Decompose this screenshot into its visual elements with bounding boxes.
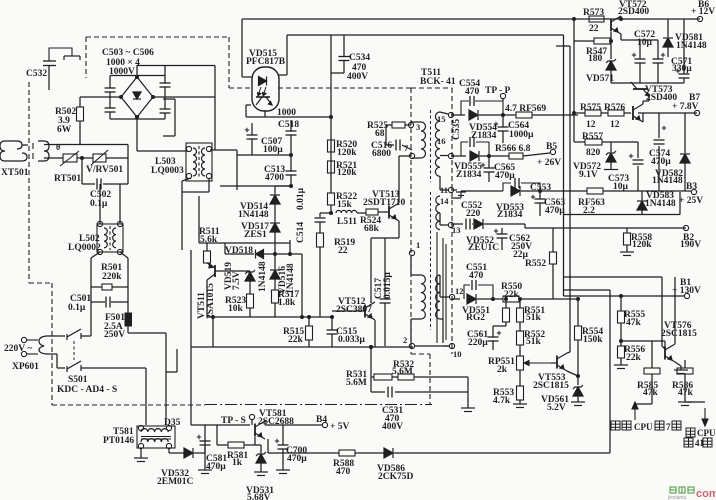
junction base node	[619, 339, 623, 343]
wire to B2	[525, 227, 686, 229]
terminal TP-S	[249, 414, 254, 419]
wire VD572 down	[610, 162, 612, 169]
svg-text:120k: 120k	[337, 168, 357, 178]
wire C573 bottom	[637, 166, 639, 191]
wire VD554 out	[479, 114, 503, 116]
svg-text:V/RV501: V/RV501	[86, 165, 123, 175]
wire VT581 collector	[264, 421, 266, 425]
wire node down to C502 row	[81, 158, 83, 184]
resistor (divider)	[503, 308, 510, 322]
resistor R519	[317, 233, 324, 247]
svg-text:47k: 47k	[678, 388, 694, 398]
transistor VT576	[665, 344, 675, 362]
wire cap top	[657, 40, 659, 59]
capacitor C563	[531, 195, 546, 203]
wire cap column left	[236, 150, 238, 190]
wire to RF563 area	[540, 190, 565, 192]
wire VD561 bottom	[577, 396, 579, 402]
svg-text:+ 26V: + 26V	[537, 158, 561, 168]
wire C551 loop left	[464, 285, 470, 299]
wire R585 top	[651, 341, 653, 368]
wire VT511 base to VD519	[215, 270, 250, 272]
wire VD514 to VD517	[274, 204, 276, 222]
resistor R585	[644, 368, 660, 374]
capacitor C562	[494, 229, 508, 238]
chassis plate	[64, 56, 80, 60]
wire R586 top	[684, 360, 686, 368]
wire C551 loop right	[478, 285, 493, 299]
wire C700 bottom	[282, 449, 284, 470]
wire R531 feed	[370, 347, 372, 377]
wire C574 bottom	[658, 146, 660, 191]
wire VT513 emitter down	[398, 221, 400, 238]
svg-text:0.015µ: 0.015µ	[383, 272, 393, 299]
svg-text:2SC1815: 2SC1815	[533, 381, 569, 391]
wire C574 top	[658, 113, 660, 138]
svg-text:0.1µ: 0.1µ	[68, 303, 86, 313]
svg-text:470: 470	[469, 271, 484, 281]
resistor R556	[618, 346, 625, 358]
capacitor C700	[275, 439, 289, 449]
label 来 (CJK)	[611, 421, 620, 430]
wire R554 top	[577, 299, 579, 326]
capacitor C572b	[653, 53, 666, 63]
capacitor (bypass)	[470, 137, 474, 147]
wire cap to bottom	[109, 112, 111, 119]
wire pass emitter	[642, 113, 644, 122]
wire right cap column to bus	[164, 66, 166, 76]
wire left regulator bus lower	[573, 113, 575, 142]
wire left box vertical to VT581 feed	[190, 250, 192, 425]
wire lower B3 loop	[564, 214, 681, 216]
capacitor C504	[105, 108, 116, 112]
svg-text:+ 7.8V: + 7.8V	[672, 102, 699, 112]
svg-text:B5: B5	[546, 142, 557, 152]
wire C516 left	[386, 144, 394, 146]
svg-text:220V ~: 220V ~	[4, 344, 32, 354]
svg-text:Z1834: Z1834	[456, 170, 482, 180]
wire down	[56, 354, 58, 368]
wire to ground	[467, 377, 469, 408]
wire L503 bottom right down	[208, 178, 210, 192]
inductor L503 right winding	[202, 148, 206, 176]
wire TP-S stub	[251, 420, 253, 425]
wire L503 bottom left out	[182, 178, 191, 181]
junction C534 node	[329, 115, 333, 119]
thermistor RT501	[60, 151, 79, 166]
svg-text:12: 12	[455, 286, 464, 296]
wire lower primary top	[411, 274, 421, 276]
wire to C514 column	[290, 253, 302, 255]
svg-text:ZEU1C: ZEU1C	[468, 243, 499, 253]
svg-text:120k: 120k	[632, 240, 652, 250]
svg-text:22: 22	[338, 246, 348, 256]
resistor R588	[339, 450, 355, 456]
wire R555 bottom	[620, 323, 622, 346]
wire jog	[166, 371, 177, 373]
wire C515 bottom	[331, 334, 333, 347]
resistor R550	[503, 296, 519, 302]
varistor RV501	[91, 150, 108, 165]
wire top cap row	[237, 154, 291, 156]
wire collector to T511 pin 7	[399, 155, 411, 157]
wire R566 to B5	[523, 153, 550, 156]
junction	[518, 297, 522, 301]
wire R575-R576	[601, 112, 608, 114]
transistor VT573 pass	[633, 104, 643, 122]
wire C512 top	[319, 213, 321, 217]
wire C518 to row	[290, 135, 292, 155]
wire VT512 emitter down	[374, 320, 376, 347]
wire R511 top	[206, 243, 208, 251]
wire VT513 collector up to pin 7	[398, 156, 400, 203]
capacitor C565	[481, 163, 495, 172]
svg-text:+ 25V: + 25V	[679, 196, 703, 206]
wire to pin 13	[440, 224, 448, 226]
wire VD517 down	[274, 232, 276, 254]
wire C563 top	[539, 191, 541, 199]
capacitor C512	[315, 218, 326, 222]
wire left leg down	[90, 258, 92, 336]
wire C507	[251, 139, 253, 155]
wire to pin 11	[440, 189, 448, 191]
svg-text:190V: 190V	[680, 240, 701, 250]
svg-text:470: 470	[465, 87, 480, 97]
svg-text:C534: C534	[349, 53, 370, 63]
svg-text:0.033µ: 0.033µ	[338, 335, 365, 345]
watermark	[670, 487, 694, 493]
ground pin 11	[456, 192, 466, 196]
L502 pin	[97, 249, 102, 254]
shield box left (dashed)	[28, 82, 30, 283]
wire plug bottom	[51, 353, 57, 355]
shield box bottom (dashed)	[52, 404, 205, 406]
wire to C561	[493, 325, 506, 327]
T581 pin	[166, 443, 171, 448]
wire jog	[524, 224, 526, 228]
svg-text:+ 5V: + 5V	[330, 422, 350, 432]
transformer T511 boundary top (dashed)	[411, 87, 452, 89]
ground C700	[276, 470, 290, 474]
T581 pin	[138, 425, 143, 430]
wire arrow to R585	[635, 403, 652, 405]
transformer T511 boundary right (dashed)	[451, 88, 453, 354]
capacitor C554	[470, 96, 474, 106]
wire pins 2-10 link	[414, 345, 449, 347]
wire VT573 collector to row	[630, 82, 632, 83]
svg-text:10µ: 10µ	[637, 38, 653, 48]
svg-text:180: 180	[588, 54, 603, 64]
wire to C531	[371, 391, 385, 393]
wire cap to bottom	[164, 113, 166, 119]
diode VD514	[270, 195, 280, 204]
wire C514 column	[301, 254, 303, 317]
T511 pin 16	[448, 153, 453, 158]
T581 pin	[166, 425, 171, 430]
wire loop right up	[679, 192, 681, 215]
wire C513 bottom	[290, 175, 292, 186]
wire optocoupler collector out	[246, 104, 251, 106]
wire RP551-R553	[519, 370, 521, 386]
zener VD519	[245, 270, 255, 281]
wire R515 bottom	[308, 340, 310, 347]
resistor R554	[575, 326, 582, 340]
wire bottom row ext	[660, 82, 684, 84]
L502 pin	[117, 221, 122, 226]
wire DC+ bus	[137, 65, 215, 67]
wire pin1 lead	[410, 256, 412, 275]
wire fuse bottom	[127, 326, 129, 333]
wire R502 top lead	[79, 97, 81, 107]
svg-text:120k: 120k	[337, 148, 357, 158]
wire VD581 bottom	[667, 47, 669, 57]
svg-text:C518: C518	[278, 120, 299, 130]
L503 pin	[186, 173, 191, 178]
wire pin16 out	[451, 155, 466, 157]
resistor R525	[392, 122, 405, 128]
zener VD531	[256, 452, 266, 463]
wire to B4	[265, 424, 322, 426]
diode VD532	[184, 448, 193, 458]
T511 winding 12-10	[436, 275, 440, 319]
wire C571 top	[683, 19, 685, 74]
svg-text:RT501: RT501	[54, 174, 81, 184]
svg-text:S501: S501	[68, 375, 88, 385]
ground R556	[614, 365, 628, 369]
wire RV501 to right column	[106, 157, 128, 159]
svg-text:TP - S: TP - S	[221, 416, 246, 426]
transformer T511 boundary bottom (dashed)	[411, 353, 430, 355]
capacitor C532	[43, 61, 56, 66]
capacitor C515	[327, 330, 338, 334]
wire C581 column	[204, 441, 206, 453]
wire mains top from XT501	[44, 144, 128, 146]
resistor R557	[585, 139, 602, 145]
wire R581 left leg	[216, 425, 218, 445]
junction VT572 collector	[619, 17, 623, 21]
resistor R555	[618, 311, 625, 323]
resistor R586	[677, 368, 693, 374]
diode VD555	[470, 151, 479, 161]
wire VD583 top	[641, 191, 643, 200]
chassis line (dash-dot)	[205, 404, 432, 406]
capacitor C513	[286, 171, 297, 175]
switch S501 pole 2	[67, 361, 81, 372]
wire to VD518 anode	[225, 253, 254, 255]
wire C700 top	[282, 425, 284, 445]
capacitor C516	[396, 140, 400, 151]
diode VD582	[680, 154, 690, 163]
ground R558	[620, 252, 634, 256]
svg-text:220: 220	[466, 209, 481, 219]
wire primary bottom lead	[412, 157, 421, 159]
svg-text:R576: R576	[604, 103, 625, 113]
svg-text:10: 10	[453, 349, 462, 359]
svg-text:13: 13	[452, 225, 461, 235]
wire to VT576 base	[621, 340, 665, 342]
wire VT576 emitter	[675, 362, 681, 366]
svg-text:LQ0003: LQ0003	[151, 166, 184, 176]
junction regulator bus top	[572, 17, 576, 21]
T511 core lower (dashed)	[430, 192, 432, 330]
wire R515 top	[308, 317, 310, 326]
svg-text:2: 2	[403, 335, 407, 345]
resistor R511	[204, 251, 211, 263]
wire VD518 to column node	[263, 253, 290, 255]
inductor L503 core (dashed)	[198, 146, 200, 178]
svg-text:R557: R557	[582, 132, 603, 142]
wire R551-R552	[519, 322, 521, 331]
wire R558 top	[626, 228, 628, 233]
svg-text:220k: 220k	[102, 272, 122, 282]
svg-text:L511: L511	[337, 217, 357, 227]
wire pin15 out	[451, 114, 465, 116]
wire down to T581 right pin	[165, 333, 167, 425]
diode VD517	[270, 223, 280, 232]
junction emitter bus left	[211, 315, 215, 319]
wire R588 to VD586	[355, 452, 384, 454]
label 脚 (CJK)	[672, 421, 681, 430]
wire T581 secondary out	[168, 448, 170, 453]
wire R585 bottom	[651, 374, 653, 404]
wire C554 loop left	[461, 101, 469, 115]
resistor R551	[517, 308, 524, 322]
wire VT511 collector down	[206, 280, 208, 317]
L503 pin	[186, 146, 191, 151]
svg-text:1N4148: 1N4148	[652, 176, 683, 186]
wire C555 loop left	[461, 142, 468, 156]
L503 pin	[206, 173, 211, 178]
ground VD561	[571, 402, 585, 406]
svg-text:150k: 150k	[583, 335, 603, 345]
svg-text:PT0146: PT0146	[103, 436, 134, 446]
wire opto to main vertical	[246, 116, 331, 118]
wire optocoupler emitter down	[264, 111, 266, 117]
wire C581 bottom	[204, 447, 206, 470]
svg-text:2k: 2k	[497, 365, 508, 375]
resistor R552 (divider)	[550, 252, 557, 264]
wire R581 to VD531	[244, 444, 261, 446]
svg-text:4.7k: 4.7k	[493, 396, 511, 406]
capacitor C552	[466, 219, 470, 230]
diode VD552	[474, 219, 483, 229]
svg-text:RG2: RG2	[466, 313, 485, 323]
shield box top (dashed)	[86, 36, 229, 38]
svg-text:470µ: 470µ	[495, 171, 515, 181]
label 脚 (CJK)	[703, 438, 712, 447]
terminal TP-P	[500, 93, 505, 98]
L502 pin	[117, 249, 122, 254]
svg-text:+ 130V: + 130V	[672, 286, 701, 296]
wire R558 bottom	[626, 245, 628, 252]
wire R557 right row	[602, 141, 638, 143]
wire bridge right arm	[153, 96, 215, 98]
T511 primary winding (pins 3-7)	[421, 122, 426, 158]
resistor R524	[366, 209, 378, 215]
svg-text:B4: B4	[316, 415, 327, 425]
resistor R522	[328, 193, 335, 205]
svg-text:0.1µ: 0.1µ	[90, 199, 108, 209]
junction C565 node	[487, 154, 491, 158]
wire collector down	[245, 105, 247, 117]
wire C564 top	[502, 115, 504, 127]
wire C534 stub join	[331, 72, 344, 74]
svg-text:470µ: 470µ	[287, 454, 307, 464]
wire C513 top	[290, 155, 292, 171]
wire C553 loop left	[503, 183, 511, 191]
wire to pin 12	[440, 296, 449, 298]
wire R517 to bus	[274, 303, 276, 317]
wire inner long vertical	[569, 46, 571, 352]
junction bridge left	[119, 95, 123, 99]
svg-text:22: 22	[589, 24, 599, 34]
switch S501 pole 1	[67, 329, 81, 340]
wire VD583 bottom	[641, 210, 643, 215]
wire C518 top	[290, 120, 292, 131]
wire to C501	[91, 301, 105, 303]
resistor R520	[328, 140, 335, 152]
wire C571 bottom	[683, 78, 685, 83]
wire down to bottom	[442, 319, 444, 343]
wire upper rail	[564, 276, 663, 278]
wire between caps	[164, 87, 166, 109]
wire R586 bottom	[684, 374, 686, 402]
T511 pin 1	[409, 250, 414, 255]
zener VD572	[606, 151, 616, 162]
svg-text:11: 11	[440, 185, 448, 195]
svg-text:B3: B3	[686, 182, 697, 192]
wire left cap column	[109, 76, 111, 89]
wire bus down to optocoupler left	[241, 19, 243, 77]
wire VT581 emitter down	[267, 439, 269, 453]
junction C513 bottom node	[289, 184, 293, 188]
wire second top bus right part	[287, 34, 564, 36]
T511 core (dashed)	[430, 110, 432, 182]
svg-text:+ 12V: + 12V	[691, 7, 715, 17]
transistor VT573	[631, 82, 649, 96]
wire VT572 emitter down	[620, 34, 622, 40]
junction	[504, 297, 508, 301]
wire fuse to T581 feed	[128, 332, 166, 334]
wire R551 top	[519, 299, 521, 308]
wire to VD532	[169, 452, 184, 454]
capacitor C506	[160, 109, 171, 113]
diode VD553	[511, 186, 520, 196]
resistor R531	[374, 374, 392, 380]
wire R552-RP551	[519, 345, 521, 356]
svg-text:68k: 68k	[364, 224, 380, 234]
plug XP601 socket	[39, 336, 51, 354]
wire column to VD518 node	[289, 240, 291, 254]
wire down to T581 left pin	[145, 368, 147, 425]
resistor R547	[594, 38, 610, 44]
svg-text:1N4148: 1N4148	[238, 210, 269, 220]
wire R552 top	[552, 228, 554, 252]
svg-text:ZES1: ZES1	[244, 230, 267, 240]
arrow from CPU (up)	[632, 402, 638, 420]
svg-text:7: 7	[666, 422, 671, 432]
transformer T581 box	[137, 426, 175, 448]
resistor RF563	[587, 188, 603, 194]
T581 pin	[138, 443, 143, 448]
wire C534 column	[330, 35, 332, 117]
wire down to C516	[385, 125, 387, 145]
svg-text:470µ: 470µ	[651, 157, 671, 167]
capacitor C517	[380, 299, 391, 303]
wire down to VD571	[610, 41, 612, 59]
wire emitter rail	[621, 39, 658, 41]
junction emitter on bus	[369, 345, 373, 349]
